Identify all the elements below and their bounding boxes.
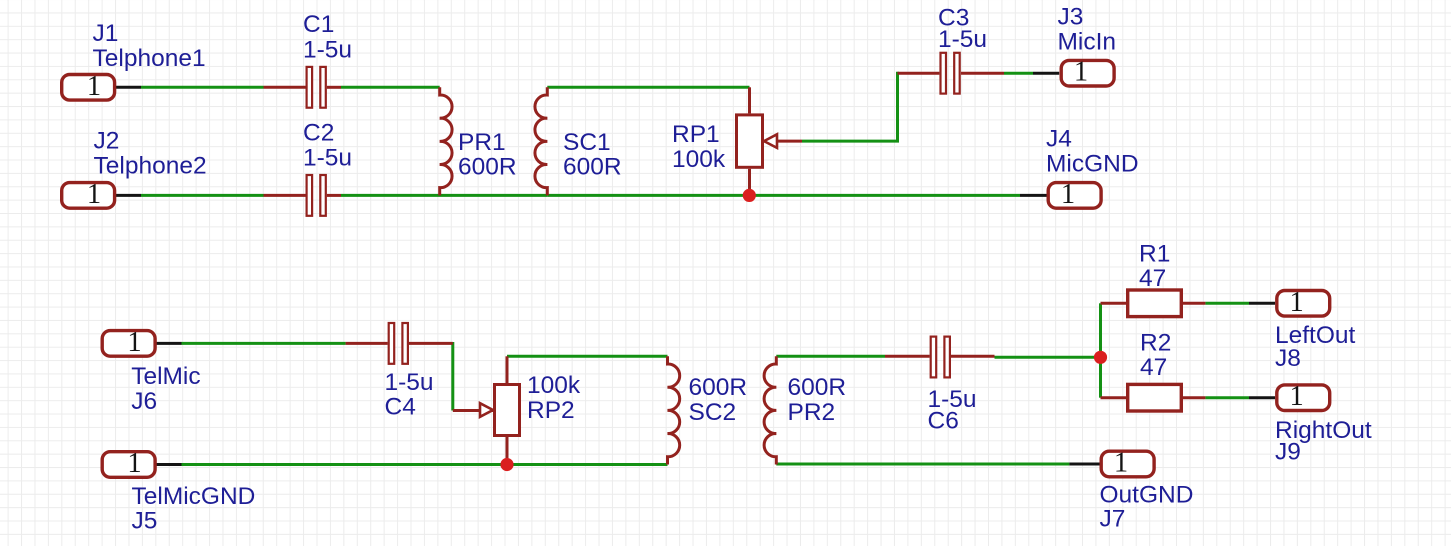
- svg-text:TelMicGND: TelMicGND: [132, 483, 256, 510]
- svg-text:R2: R2: [1140, 330, 1171, 357]
- svg-text:1: 1: [127, 448, 141, 479]
- svg-text:J9: J9: [1275, 439, 1301, 466]
- svg-text:1: 1: [1289, 381, 1303, 412]
- svg-text:1-5u: 1-5u: [385, 369, 434, 396]
- svg-text:Telphone1: Telphone1: [93, 45, 206, 72]
- svg-text:1: 1: [127, 327, 141, 358]
- svg-text:47: 47: [1139, 265, 1166, 292]
- svg-text:PR2: PR2: [788, 399, 836, 426]
- svg-text:100k: 100k: [527, 372, 581, 399]
- svg-text:SC2: SC2: [689, 399, 737, 426]
- svg-text:J2: J2: [94, 128, 120, 155]
- svg-text:600R: 600R: [689, 374, 748, 401]
- svg-text:MicIn: MicIn: [1058, 29, 1117, 56]
- svg-text:1: 1: [1074, 57, 1088, 88]
- svg-text:1: 1: [87, 179, 101, 210]
- svg-text:1: 1: [1289, 287, 1303, 318]
- svg-text:C4: C4: [385, 394, 416, 421]
- svg-text:J6: J6: [131, 388, 157, 415]
- svg-text:1: 1: [1061, 179, 1075, 210]
- svg-text:R1: R1: [1139, 241, 1170, 268]
- svg-text:1: 1: [87, 71, 101, 102]
- svg-text:1-5u: 1-5u: [303, 145, 352, 172]
- svg-text:RP2: RP2: [527, 397, 575, 424]
- svg-text:600R: 600R: [788, 374, 847, 401]
- svg-text:J5: J5: [132, 507, 158, 534]
- svg-text:C6: C6: [928, 408, 959, 435]
- svg-text:OutGND: OutGND: [1100, 482, 1194, 509]
- svg-text:J8: J8: [1275, 345, 1301, 372]
- svg-text:600R: 600R: [563, 154, 622, 181]
- svg-text:C2: C2: [303, 119, 334, 146]
- svg-text:MicGND: MicGND: [1046, 151, 1139, 178]
- svg-text:1-5u: 1-5u: [303, 36, 352, 63]
- svg-text:SC1: SC1: [563, 129, 611, 156]
- svg-text:TelMic: TelMic: [131, 363, 200, 390]
- svg-text:1: 1: [1114, 448, 1128, 479]
- svg-text:100k: 100k: [672, 146, 726, 173]
- svg-text:J7: J7: [1100, 506, 1126, 533]
- svg-text:J1: J1: [93, 20, 119, 47]
- svg-text:600R: 600R: [458, 154, 517, 181]
- svg-text:J4: J4: [1046, 126, 1072, 153]
- svg-text:Telphone2: Telphone2: [94, 153, 207, 180]
- svg-text:47: 47: [1140, 354, 1167, 381]
- svg-text:J3: J3: [1058, 3, 1084, 30]
- svg-text:C1: C1: [303, 11, 334, 38]
- svg-text:RP1: RP1: [672, 121, 720, 148]
- svg-text:1-5u: 1-5u: [938, 26, 987, 53]
- svg-text:PR1: PR1: [458, 129, 506, 156]
